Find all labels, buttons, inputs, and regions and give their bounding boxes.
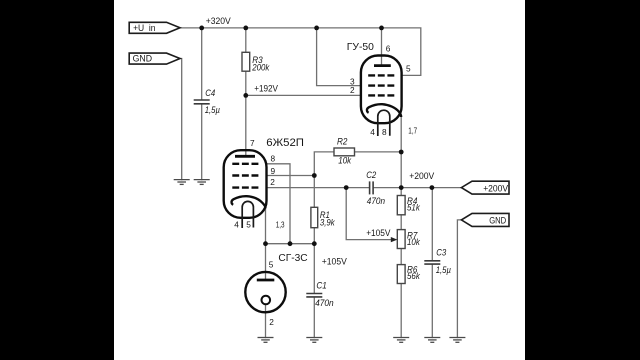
resistor R4 51k body xyxy=(397,196,405,215)
svg-text:C1: C1 xyxy=(316,281,326,291)
tube 6Ж52П cathode curve xyxy=(232,196,266,208)
svg-text:+200V: +200V xyxy=(483,183,508,193)
svg-text:C2: C2 xyxy=(366,170,376,180)
white schematic background xyxy=(114,0,525,360)
svg-text:8: 8 xyxy=(382,127,387,137)
ground symbol under C4 xyxy=(194,180,210,185)
wire C4 top branch xyxy=(201,28,203,99)
tube ГУ-50 envelope xyxy=(361,56,402,124)
left letterbox bar xyxy=(0,0,114,360)
svg-text:GND: GND xyxy=(489,216,506,226)
svg-text:51k: 51k xyxy=(407,203,420,213)
wire R3 bottom lead through +192V node down to 6Ж52П anode pin 7 xyxy=(245,71,247,156)
svg-text:5: 5 xyxy=(406,64,411,74)
capacitor C1 plates xyxy=(306,293,322,295)
svg-text:200k: 200k xyxy=(251,62,269,72)
right letterbox bar xyxy=(525,0,640,360)
svg-text:6Ж52П: 6Ж52П xyxy=(266,137,304,149)
node dot +320V/grid3 drop xyxy=(314,26,319,31)
resistor R6 56k body xyxy=(397,265,405,284)
svg-text:ГУ-50: ГУ-50 xyxy=(347,41,374,53)
svg-text:5: 5 xyxy=(269,260,274,270)
tube ГУ-50 heater xyxy=(378,110,390,136)
capacitor C4 plates xyxy=(194,99,210,101)
ground symbol under GND right tag xyxy=(449,338,465,343)
svg-text:2: 2 xyxy=(269,317,274,327)
wire C3 bottom to ground xyxy=(431,265,433,338)
resistor R1 3,9k body xyxy=(311,207,318,227)
tube ГУ-50 anode plate xyxy=(374,64,391,67)
wire R1 top lead xyxy=(313,176,315,208)
tube ГУ-50 grid row pin 2 xyxy=(368,94,394,96)
svg-text:9: 9 xyxy=(271,166,276,176)
svg-text:+192V: +192V xyxy=(254,83,278,93)
potentiometer R7 wiper arrowhead xyxy=(391,237,398,242)
svg-text:4: 4 xyxy=(234,219,239,229)
wire top rail drop to ГУ-50 grid pin 3 xyxy=(317,28,361,86)
wire cathode line 6Ж52П to R1/C1 xyxy=(266,243,315,245)
svg-text:+105V: +105V xyxy=(366,228,390,238)
svg-text:СГ-3С: СГ-3С xyxy=(278,253,308,264)
wire R7 to R6 xyxy=(400,249,402,265)
svg-text:R2: R2 xyxy=(337,137,347,147)
ground symbol under C1 xyxy=(306,338,322,343)
connector tag GND right xyxy=(461,213,509,226)
svg-text:1,5µ: 1,5µ xyxy=(436,265,451,275)
svg-text:C4: C4 xyxy=(205,88,215,98)
svg-text:7: 7 xyxy=(250,138,255,148)
svg-text:1,5µ: 1,5µ xyxy=(205,105,220,115)
svg-text:1,7: 1,7 xyxy=(408,125,417,135)
svg-text:+200V: +200V xyxy=(409,171,434,181)
wire C4 bottom to ground xyxy=(201,104,203,179)
resistor R2 10k body xyxy=(334,148,355,156)
tube СГ-3С anode bar xyxy=(257,279,275,282)
wire GND tag to ground xyxy=(180,59,182,180)
tube СГ-3С envelope xyxy=(245,272,285,312)
node dot cathode/R1/C1 xyxy=(312,241,317,246)
svg-text:6: 6 xyxy=(386,44,391,54)
tube 6Ж52П grid row pin 9 xyxy=(232,174,258,176)
svg-text:1,3: 1,3 xyxy=(276,220,285,230)
wire +105V feedback from grid line down to R7 wiper xyxy=(346,188,393,240)
connector tag +200V xyxy=(461,181,509,194)
tube 6Ж52П envelope xyxy=(224,150,267,218)
resistor R3 200k body xyxy=(242,52,250,71)
node dot +200V/C3 xyxy=(430,185,435,190)
node dot R2 right / ГУ-50 cathode xyxy=(399,150,404,155)
svg-text:10k: 10k xyxy=(407,237,420,247)
tube 6Ж52П grid row pin 8 xyxy=(232,163,258,165)
wire 6Ж52П pin 9 row xyxy=(267,175,315,177)
connector tag GND left xyxy=(129,53,180,64)
wire C1 bottom to ground xyxy=(313,298,315,338)
svg-text:470n: 470n xyxy=(315,298,334,308)
wire C3 branch from +200V line xyxy=(431,188,433,261)
svg-text:GND: GND xyxy=(133,54,153,64)
tube ГУ-50 grid row pin 3 xyxy=(368,84,394,86)
tube ГУ-50 grid row pin 5 xyxy=(368,74,394,76)
svg-text:56k: 56k xyxy=(407,271,420,281)
capacitor C3 plates xyxy=(424,260,440,262)
svg-text:5: 5 xyxy=(246,219,251,229)
potentiometer R7 10k body xyxy=(397,230,405,249)
wire СГ-3С pin 5 lead xyxy=(265,244,267,279)
svg-text:3,9k: 3,9k xyxy=(320,217,335,227)
svg-text:+U_in: +U_in xyxy=(133,23,155,33)
svg-text:C3: C3 xyxy=(436,248,446,258)
tube ГУ-50 cathode curve xyxy=(367,104,401,117)
tube СГ-3С cathode circle xyxy=(262,296,271,305)
node dot +320V/C4 xyxy=(199,26,204,31)
svg-text:+105V: +105V xyxy=(322,257,347,267)
wire GND right tag to ground xyxy=(457,220,461,338)
tube 6Ж52П anode plate xyxy=(235,155,255,158)
svg-text:10k: 10k xyxy=(338,155,351,165)
node dot +320V/R3 xyxy=(243,26,248,31)
wire R6 to ground xyxy=(400,284,402,338)
svg-text:470n: 470n xyxy=(367,196,385,206)
wire ГУ-50 anode pin 6 xyxy=(381,28,383,66)
svg-text:8: 8 xyxy=(271,154,276,164)
wire R3 top lead xyxy=(245,28,247,52)
wire 6Ж52П cathode lead down xyxy=(265,208,267,244)
node dot pin9/R2/R1 junction xyxy=(312,173,317,178)
node dot grid line / +105V drop xyxy=(344,185,349,190)
capacitor C2 plates xyxy=(369,181,371,194)
tube 6Ж52П heater xyxy=(242,201,253,228)
wire R1 bottom lead xyxy=(313,228,315,244)
wire 6Ж52П pin 8 row down to cathode line xyxy=(267,164,290,244)
wire R4 to R7 xyxy=(400,215,402,230)
wire +192V node to ГУ-50 grid pin 2 xyxy=(246,94,361,96)
wire 6Ж52П grid pin 2 row to C2 xyxy=(267,187,370,189)
wire СГ-3С pin 2 lead to ground xyxy=(265,305,267,338)
svg-text:2: 2 xyxy=(270,177,275,187)
ground symbol under СГ-3С xyxy=(258,338,274,343)
svg-text:+320V: +320V xyxy=(206,16,231,26)
node dot +320V/anode pin6 xyxy=(379,26,384,31)
ground symbol under R6 xyxy=(393,338,409,343)
node dot cathode/pin8 xyxy=(288,241,293,246)
node dot cathode/СГ-3С xyxy=(263,241,268,246)
wire R2 left lead xyxy=(314,152,334,176)
wire C2 to +200V tag xyxy=(374,187,462,189)
node dot +200V output xyxy=(399,185,404,190)
svg-text:2: 2 xyxy=(350,85,355,95)
connector tag +U_in xyxy=(129,22,180,33)
ground symbol under C3 xyxy=(424,338,440,343)
wire C1 branch from cathode line xyxy=(313,244,315,293)
node dot +192V xyxy=(243,93,248,98)
wire ГУ-50 cathode lead down to R4 xyxy=(400,116,402,196)
svg-text:4: 4 xyxy=(370,127,375,137)
ground symbol under GND left tag xyxy=(174,180,190,185)
wire R2 right lead xyxy=(355,151,402,153)
wire +320V top rail from +U_in tag to ГУ-50 pin5 corner xyxy=(180,28,421,76)
tube 6Ж52П grid row pin 2 xyxy=(232,186,258,188)
